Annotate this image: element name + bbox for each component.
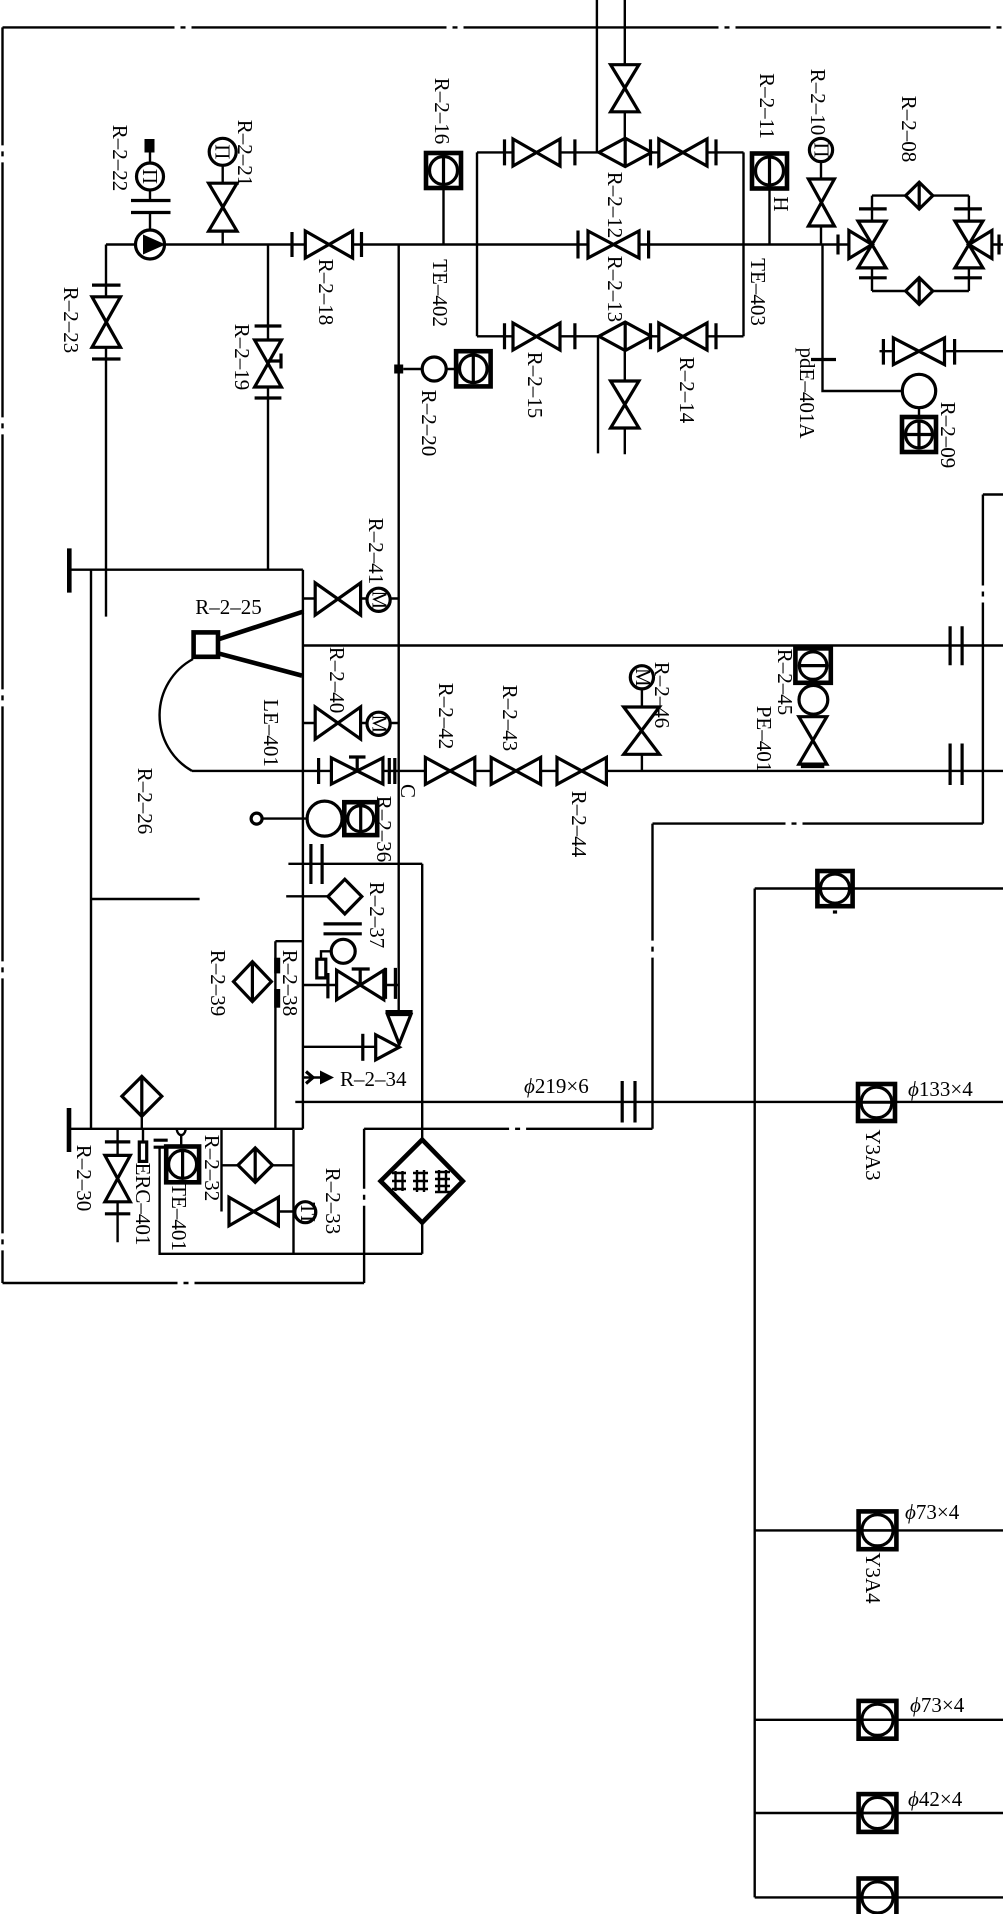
wire sample loop	[160, 1129, 423, 1254]
sample loop bars	[154, 1140, 168, 1147]
flange ticks bottom branch	[505, 323, 717, 349]
svg-text:ϕ133×4: ϕ133×4	[908, 1077, 973, 1101]
svg-text:R–2–32: R–2–32	[200, 1135, 224, 1202]
instrument square R-2-20	[456, 351, 491, 386]
diamond R-2-32	[238, 1148, 272, 1182]
diamond R-2-39	[234, 962, 272, 1002]
valve R-2-30	[116, 1129, 118, 1242]
valve R-2-46	[641, 689, 643, 707]
svg-text:ERC–401: ERC–401	[131, 1163, 155, 1246]
filter glyph you	[413, 1170, 428, 1192]
svg-text:ϕ219×6: ϕ219×6	[524, 1074, 589, 1098]
wire R-2-19 branch	[267, 245, 269, 570]
class square branch2	[859, 1701, 897, 1739]
wire ladder top branch	[477, 151, 744, 153]
angle valve R-2-34	[386, 1010, 413, 1013]
svg-text:R–2–18: R–2–18	[314, 259, 338, 326]
svg-text:R–2–41: R–2–41	[364, 518, 388, 585]
svg-text:TI: TI	[296, 1202, 320, 1222]
check diamond top branch	[599, 138, 652, 166]
filter glyph lv	[435, 1170, 450, 1192]
instrument circle R-2-37	[331, 939, 355, 963]
svg-text:R–2–46: R–2–46	[650, 662, 674, 729]
svg-text:R–2–13: R–2–13	[603, 256, 627, 323]
svg-text:TE–403: TE–403	[746, 258, 770, 326]
motor circle R-2-41	[367, 588, 390, 611]
wire phi219 main line	[295, 1101, 1003, 1103]
pipe break bars phi219	[622, 1081, 635, 1123]
instrument circle R-2-36	[307, 801, 342, 836]
pipe break bars line A	[950, 626, 962, 665]
svg-text:C: C	[396, 784, 420, 798]
valve R-2-40	[303, 722, 399, 724]
svg-text:pdE–401A: pdE–401A	[795, 348, 819, 440]
vent circle R-2-36	[251, 813, 262, 824]
class square branch1	[859, 1511, 897, 1549]
svg-text:R–2–34: R–2–34	[340, 1067, 407, 1091]
wire line A y645	[303, 644, 1003, 646]
svg-text:R–2–14: R–2–14	[675, 357, 699, 424]
union bars R-2-22	[131, 201, 171, 213]
orifice ERC-401	[142, 1129, 144, 1142]
svg-text:R–2–10: R–2–10	[806, 69, 830, 136]
wire tank left side x91	[90, 570, 92, 1129]
flange ticks top branch	[505, 139, 717, 165]
svg-text:R–2–23: R–2–23	[59, 287, 83, 354]
boundary chain top	[3, 26, 1003, 28]
node R-2-20	[394, 365, 403, 374]
boundary chain y494 stub	[983, 493, 1003, 495]
svg-text:R–2–38: R–2–38	[278, 950, 302, 1017]
valve R-2-43	[491, 758, 540, 785]
boundary chain y823	[653, 822, 983, 824]
valve PE-401	[799, 717, 827, 764]
wire ring bottom	[872, 290, 969, 292]
diamond R-2-37	[328, 879, 362, 914]
instrument square R-2-09	[902, 417, 936, 452]
valve R-2-44	[557, 758, 606, 785]
instrument circle R-2-21	[209, 138, 236, 165]
wire ring top	[872, 194, 969, 196]
arrow R-2-34	[303, 1076, 320, 1078]
instrument square TE-401	[166, 1147, 199, 1183]
svg-text:R–2–19: R–2–19	[230, 324, 254, 391]
filter diamond	[381, 1140, 463, 1223]
svg-text:R–2–26: R–2–26	[133, 768, 157, 835]
motor circle R-2-46	[630, 666, 653, 689]
wire lower right valve branch	[880, 350, 1003, 352]
valve R-2-10	[808, 179, 834, 226]
svg-text:R–2–12: R–2–12	[603, 172, 627, 239]
pipe break bars line B	[950, 744, 962, 786]
valve R-2-23	[92, 285, 121, 359]
wire ladder right riser x743	[742, 152, 744, 336]
wire R-2-32 drop	[222, 1129, 294, 1212]
svg-text:П: П	[138, 169, 162, 184]
bars below diamond R-2-37	[324, 924, 362, 934]
svg-text:R–2–20: R–2–20	[417, 390, 441, 457]
valve R-2-33	[229, 1197, 278, 1225]
instrument circle R-2-10	[809, 138, 832, 161]
svg-text:R–2–15: R–2–15	[523, 352, 547, 419]
wire branch y1897	[755, 1896, 1003, 1898]
valve on line B with stem	[319, 758, 395, 784]
svg-text:LE–401: LE–401	[259, 699, 283, 767]
flange tick ring inlet	[836, 235, 839, 255]
svg-text:TE–401: TE–401	[167, 1183, 191, 1251]
svg-text:R–2–39: R–2–39	[206, 950, 230, 1017]
valve 3way left	[849, 221, 886, 268]
wire top drain stubs	[597, 0, 625, 152]
svg-text:R–2–09: R–2–09	[936, 402, 960, 469]
boundary chain y1128	[364, 1128, 652, 1130]
instrument circle R-2-22	[137, 163, 164, 190]
svg-text:П: П	[211, 144, 235, 159]
instrument circle R-2-20	[422, 357, 446, 381]
flange tick ring outlet	[997, 235, 1000, 255]
svg-text:R–2–22: R–2–22	[108, 125, 132, 192]
instrument circle PE-401	[799, 685, 828, 714]
instrument square R-2-36	[344, 802, 377, 835]
level bell LE-401 arc	[160, 659, 193, 771]
wire main header line y244	[106, 243, 1003, 245]
valve top-branch left	[513, 139, 560, 166]
wire instrument column x398	[398, 245, 400, 1012]
valve R-2-38	[303, 984, 399, 986]
svg-text:Y3A4: Y3A4	[861, 1552, 885, 1604]
boundary chain left	[1, 27, 3, 1283]
capillary squiggle TE-401	[177, 1130, 186, 1136]
svg-text:PE–401: PE–401	[752, 706, 776, 773]
wire main riser x754	[754, 889, 756, 1898]
wire bottom drain stubs	[598, 336, 625, 454]
valve top-branch right	[659, 139, 707, 166]
svg-text:M: M	[368, 714, 392, 733]
valve R-2-41	[303, 597, 399, 599]
horn R-2-25	[194, 632, 218, 656]
wire header y569	[69, 569, 303, 571]
wire riser x275	[275, 941, 303, 1129]
boundary chain riser x364	[363, 1129, 365, 1283]
class square Y3A3	[858, 1084, 895, 1121]
svg-text:R–2–44: R–2–44	[567, 791, 591, 858]
check diamond ring bottom	[906, 278, 933, 305]
filter glyph ji	[392, 1171, 406, 1191]
motor circle R-2-40	[367, 712, 390, 735]
terminal bar upper left	[67, 548, 72, 592]
valve R-2-18	[292, 232, 362, 257]
wire R-2-37 branch	[286, 895, 328, 897]
svg-text:R–2–42: R–2–42	[434, 683, 458, 750]
instrument square R-2-16	[426, 153, 461, 188]
svg-text:R–2–30: R–2–30	[72, 1145, 96, 1212]
svg-text:R–2–08: R–2–08	[897, 96, 921, 163]
svg-text:R–2–11: R–2–11	[755, 73, 779, 139]
wire branch y1530	[755, 1529, 1003, 1531]
wire TE-403 stem	[768, 189, 770, 245]
valve R-2-19	[255, 326, 282, 398]
svg-text:R–2–40: R–2–40	[325, 647, 349, 714]
svg-text:R–2–37: R–2–37	[365, 882, 389, 949]
wire branch y1719	[755, 1719, 1003, 1721]
instrument R-2-22 stem+tag	[145, 139, 155, 153]
class square branch3	[859, 1794, 897, 1832]
instrument square TE-403	[752, 154, 787, 189]
wire manifold y1128	[69, 1128, 303, 1130]
instrument circle R-2-09	[902, 374, 935, 407]
orifice rect R-2-37	[317, 959, 326, 978]
class square branch4	[859, 1879, 897, 1914]
boundary chain bottom-left	[3, 1282, 365, 1284]
wire branch y1813	[755, 1812, 1003, 1814]
hose marks x275	[274, 958, 280, 974]
check diamond bottom branch	[599, 322, 652, 350]
wire bell bottom y770	[192, 770, 1003, 772]
valve unlabeled y351	[883, 339, 954, 365]
svg-text:П: П	[810, 142, 834, 157]
svg-text:ϕ42×4: ϕ42×4	[908, 1787, 963, 1811]
wire R-2-23 branch	[105, 245, 107, 617]
svg-text:R–2–16: R–2–16	[430, 78, 454, 145]
class square y888	[817, 871, 852, 906]
wire TE-402 stem	[442, 188, 444, 245]
wire ladder bottom branch	[477, 335, 744, 337]
wire pdE-401A stem	[823, 245, 903, 392]
wire ladder left riser x477	[476, 152, 478, 336]
valve bottom-branch left R-2-15	[513, 323, 560, 350]
valve top stub	[611, 65, 639, 112]
instrument circle R-2-33	[295, 1202, 316, 1223]
svg-text:H: H	[769, 196, 793, 211]
valve 3way right	[955, 221, 992, 268]
svg-text:R–2–36: R–2–36	[372, 796, 396, 863]
svg-text:Y3A3: Y3A3	[861, 1129, 885, 1180]
boundary chain riser x652	[651, 824, 653, 1129]
valve R-2-42	[425, 758, 474, 785]
diamond lower-left	[122, 1076, 162, 1116]
valve R-2-12 main	[578, 231, 649, 259]
svg-text:TE–402: TE–402	[428, 259, 452, 327]
wire sample line y863	[288, 863, 422, 865]
svg-text:R–2–33: R–2–33	[321, 1168, 345, 1235]
svg-text:R–2–25: R–2–25	[195, 595, 262, 619]
wire riser x422	[421, 864, 423, 1140]
valve bottom-branch right R-2-14	[659, 323, 707, 350]
wire right header y888	[755, 887, 1003, 889]
check diamond ring top	[906, 182, 933, 209]
valve bottom stub	[611, 381, 639, 428]
svg-text:ϕ73×4: ϕ73×4	[905, 1500, 960, 1524]
pump P	[136, 230, 165, 259]
valve R-2-21	[209, 183, 237, 231]
boundary chain riser x982	[982, 495, 984, 824]
wire tank inner line y899	[91, 898, 200, 900]
svg-text:R–2–43: R–2–43	[498, 685, 522, 752]
terminal bar lower left	[67, 1108, 72, 1152]
instrument square R-2-45	[795, 648, 830, 682]
wire riser x302	[302, 570, 304, 1129]
pipe break bars y863	[311, 844, 322, 884]
svg-text:ϕ73×4: ϕ73×4	[910, 1693, 965, 1717]
svg-text:M: M	[368, 590, 392, 609]
